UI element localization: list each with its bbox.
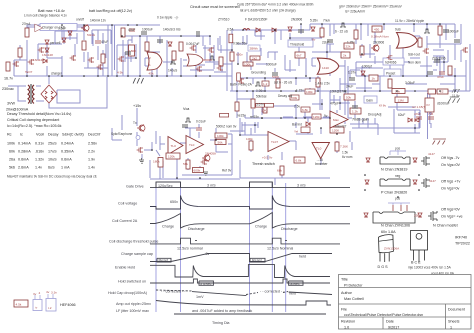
svg-text:3v: 3v [33,292,37,296]
wire pos drop [390,150,406,155]
svg-text:100k: 100k [306,90,313,94]
cursor line 5 [285,183,287,312]
svg-text:11.9v = 28mW ripple: 11.9v = 28mW ripple [395,19,424,23]
svg-text:100k0.14mA0.31v25uS0.24mA2.56v: 100k0.14mA0.31v25uS0.24mA2.56v [7,142,97,146]
svg-text:Kf: Kf [427,103,430,107]
svg-text:Timing Dia: Timing Dia [212,321,230,325]
svg-text:470pF: 470pF [330,102,339,106]
svg-text:TIP20/22: TIP20/22 [455,242,470,246]
svg-text:120k: 120k [168,155,175,159]
junction dots top [61,24,63,26]
diode jfet1 right [413,158,417,162]
svg-text:Ref 9v: Ref 9v [222,169,232,173]
svg-text:50k/bal: 50k/bal [256,95,267,99]
svg-text:ref 1.b5(T: ref 1.b5(T [412,105,426,109]
svg-text:1.15v: 1.15v [296,89,304,93]
diode jfet2 right [413,180,417,184]
box 700k [290,95,299,100]
svg-text:3 mS: 3 mS [207,184,216,188]
svg-text:13M: 13M [398,99,404,103]
or-gate U1b [187,54,203,66]
svg-text:60k0.28mA.616v17uS0.35mA2.2v: 60k0.28mA.616v17uS0.35mA2.2v [9,150,95,154]
svg-text:12.5uS Nominal: 12.5uS Nominal [267,247,293,251]
dots jfet [364,174,366,176]
svg-text:3.67v: 3.67v [256,103,264,107]
svg-text:120uSec: 120uSec [158,184,173,188]
svg-text:1N4148: 1N4148 [42,53,53,57]
svg-text:d1000uF: d1000uF [437,102,450,106]
pulse glyph vco [185,118,191,122]
wire charger loop [57,90,80,103]
wire left drop [13,60,15,76]
enable hold trace [150,265,330,278]
svg-text:2k2: 2k2 [252,57,257,61]
mosfet mid [190,45,196,51]
diode pair amp in 2 [415,118,419,122]
svg-text:Ic=14v(Rc=2.5). *max Rc=105.6k: Ic=14v(Rc=2.5). *max Rc=105.6k [7,124,62,128]
svg-text:HEF4066: HEF4066 [60,303,76,307]
transistor 2N3906 [371,45,379,52]
svg-text:on/off: on/off [76,18,84,22]
svg-text:2BWk: 2BWk [250,47,259,51]
box Gain [364,96,377,103]
svg-text:neg: neg [395,174,401,178]
wire density round4 b [214,38,238,72]
svg-text:tr: tr [36,306,38,310]
box 22 [437,89,448,94]
resistor 4.5k hef [14,300,28,307]
resistor gap e [220,113,229,117]
ripple trace [156,301,331,306]
svg-text:Reset: Reset [252,258,262,262]
box 13M [395,97,408,103]
svg-text:2N4058: 2N4058 [205,152,216,156]
box 1.2 batt [262,81,269,86]
switch box t2 [46,299,56,312]
wire density round3 c [251,52,296,72]
wire or3 [312,58,345,66]
svg-text:RcIcVcoilDecayS&H(C dv/dt)DecC: RcIcVcoilDecayS&H(C dv/dt)DecChf [7,133,101,137]
wire big loop regulator [128,40,167,76]
svg-text:5uSec: 5uSec [290,282,301,286]
svg-text:500K: 500K [272,75,280,79]
hold switched trace [150,279,330,283]
transistor 2N4058 [202,155,210,162]
diode supply [256,28,260,32]
op-amp inverter [312,143,330,159]
svg-text:650v: 650v [236,53,243,57]
svg-text:Kf 8v: Kf 8v [379,104,387,108]
diode jfet1 left [366,158,370,162]
box 50k left [344,94,355,100]
svg-text:Charge: Charge [162,225,174,229]
box 6k yel [301,127,310,133]
or-gate U2 threshold [317,58,339,74]
svg-text:9/2017: 9/2017 [388,326,399,330]
coil voltage trace [150,196,350,210]
resistor extra tm2 [320,28,324,37]
mosfet cell switch 2 [88,57,94,63]
svg-text:- - corrected - -: - - corrected - - [161,290,186,294]
svg-text:Reset: Reset [159,258,169,262]
svg-text:1N4148: 1N4148 [33,58,44,62]
svg-text:held: held [299,255,306,259]
svg-text:D G S: D G S [378,265,389,269]
wire vco bottom row [150,145,240,179]
svg-text:650v: 650v [170,200,178,204]
svg-text:N Chan mosfet: N Chan mosfet [433,224,458,228]
wire reg top loop [112,25,210,76]
box 2BWA [248,45,260,51]
svg-text:120K: 120K [332,129,340,133]
mosfet drawing 3 [428,211,437,221]
wire or gate2 links [183,60,214,66]
capacitor 47uF charger [95,41,101,43]
ground right bus [448,97,460,103]
capacitor coupling [197,31,199,37]
svg-text:LF jitter 100mV max: LF jitter 100mV max [116,309,149,313]
package TO-92 ZVN1306A [379,235,394,262]
svg-text:Coil Current 2A: Coil Current 2A [112,219,138,223]
capacitor 47uF corner [416,117,422,119]
svg-text:3 mS: 3 mS [297,184,306,188]
resistor reg in [121,28,125,37]
svg-text:Batt max +18.4v: Batt max +18.4v [38,9,65,13]
svg-text:Is= 226uA/mV: Is= 226uA/mV [345,10,366,14]
ground spkr [139,158,144,163]
svg-text:TL0: TL0 [189,143,195,147]
junction dots misc [246,77,248,79]
wire charger right column [107,25,109,76]
resistor extra a [18,48,22,57]
pulse symbol 2 [209,56,215,60]
svg-text:TL0: TL0 [171,144,177,148]
svg-text:Date: Date [386,320,394,324]
svg-text:File: File [341,308,347,312]
svg-text:1.2k: 1.2k [352,110,358,114]
svg-text:Yel: Yel [294,130,298,134]
svg-text:Critical Coil damping dependan: Critical Coil damping dependant [7,118,59,122]
svg-text:6v nom: 6v nom [342,155,353,159]
capacitor right b [439,72,445,74]
capacitor gnding [272,73,278,75]
svg-text:4 5k: 4 5k [117,71,123,75]
box 22 second [428,89,436,94]
box 56k vco [215,140,226,145]
svg-text:0.5A: 0.5A [227,28,234,32]
mosfet spkr [137,147,143,153]
transistor charger pass [81,25,89,32]
resistor 450 [372,26,382,32]
dots extra [135,57,137,59]
svg-text:0 1w ripple →|⊦: 0 1w ripple →|⊦ [157,16,179,20]
svg-text:1.5k: 1.5k [342,151,348,155]
svg-text:1mV: 1mV [196,295,204,299]
svg-text:3.3v: 3.3v [51,291,57,295]
svg-text:22uF: 22uF [322,41,329,45]
wire thresh opamp [240,118,296,178]
svg-text:9uS: 9uS [395,28,401,32]
svg-text:ne15v: ne15v [237,114,246,118]
svg-text:8v: 8v [312,38,316,42]
wire density round3 f [312,96,375,124]
wire loop left b [88,52,108,68]
box 22k [344,43,354,49]
svg-text:7.26K: 7.26K [340,145,349,149]
mosfet vco [201,159,207,165]
svg-text:On Vgs= +ve: On Vgs= +ve [441,215,463,219]
svg-text:Sheets: Sheets [448,320,460,324]
svg-text:TL07: TL07 [271,140,278,144]
wire density round4 c [356,44,375,88]
box 6k7 [295,52,305,58]
capacitor 24uF [349,78,355,80]
svg-text:batt low/Reg cut off(12.2v): batt low/Reg cut off(12.2v) [89,9,132,13]
svg-text:+0.5 9v: +0.5 9v [262,156,273,160]
svg-text:6.8k: 6.8k [302,108,308,112]
svg-text:per cell: per cell [50,41,61,45]
svg-text:62uF: 62uF [398,113,405,117]
wire extra h left [14,31,98,68]
ground vco [203,172,208,175]
svg-text:140uS: 140uS [168,69,177,73]
wire mid verticals [152,42,181,76]
resistor 1S [438,26,442,35]
svg-text:140uS/3 mS: 140uS/3 mS [163,28,181,32]
svg-text:140mA 12v: 140mA 12v [90,19,106,23]
wire mid columns charger [47,25,98,76]
svg-text:60v 1.8A: 60v 1.8A [381,230,396,234]
svg-text:Author: Author [341,291,353,295]
svg-text:0.96v: 0.96v [256,89,264,93]
mosfet right a [423,48,429,54]
svg-text:Max437: Max437 [335,125,347,129]
svg-text:47uF: 47uF [128,28,135,32]
svg-text:pos: pos [395,147,401,151]
capacitor vco2 [182,125,188,127]
svg-text:6k7: 6k7 [297,54,302,58]
box 6.8k [301,107,310,112]
capacitor 47uF reg [129,29,135,31]
svg-text:180k: 180k [153,160,160,164]
svg-text:3VW: 3VW [7,102,16,106]
wire extra topmid h [237,30,345,52]
wire density round4 a [125,44,136,62]
resistor gap c [360,46,364,55]
resistor 100k a [243,62,253,66]
wire extra density left [20,27,103,76]
resistor extra b [101,54,105,63]
zener ref [168,42,172,46]
svg-text:68k: 68k [277,169,282,173]
capacitor 1000uF right [454,40,460,42]
reset box 1 [157,258,171,262]
resistor threshold chain [251,99,255,108]
mosfet reg switch [118,56,124,62]
svg-text:2k: 2k [343,54,347,58]
svg-text:Off Vgs +7v: Off Vgs +7v [441,180,460,184]
capacitor 22uF [327,40,333,42]
svg-text:Circuit case must be screened: Circuit case must be screened [190,5,240,9]
resistor charger [82,41,86,50]
svg-text:Coil voltage: Coil voltage [118,202,137,206]
svg-text:0.38mA Nom: 0.38mA Nom [371,35,389,39]
mosfet extra a [38,47,44,53]
resistor extra r1 [354,30,358,39]
svg-text:5.35v: 5.35v [310,19,318,23]
svg-text:7u5: 7u5 [428,112,433,116]
svg-text:600k: 600k [194,169,201,173]
svg-text:P Chan 2N3820: P Chan 2N3820 [381,191,407,195]
svg-text:mje 13003 vces 400v Icn 1.: mje 13003 vces 400v Icn 1.5A [408,266,452,270]
box 600k [193,168,204,173]
ground red corner [433,139,447,145]
resistor 2k2 [250,56,260,60]
resistor gap b [230,52,234,61]
svg-text:held: held [289,292,296,296]
droop trace [156,290,288,295]
svg-text:12.5uS nominal: 12.5uS nominal [177,247,203,251]
inductor L filter [243,29,250,31]
resistor 8k2 [316,78,320,87]
wire right double verticals [345,60,348,118]
package TO-220 [411,231,428,263]
gate drive trace [150,182,350,188]
resistor battery balance [25,28,29,37]
svg-text:ZTV510: ZTV510 [218,18,230,22]
svg-text:0.5uF: 0.5uF [58,27,66,31]
svg-text:100k: 100k [217,134,224,138]
mosfet batt [238,78,244,84]
svg-text:120k: 120k [313,115,320,119]
wire main +15 bus left [14,75,232,77]
mosfet cell switch [70,55,76,61]
wire density round4 e [230,122,258,133]
wire batt peak row [237,78,310,118]
capacitor extra reg [157,40,163,42]
cursor line 1 [155,183,157,312]
svg-text:Decay Threshold detail(Nom Vs=: Decay Threshold detail(Nom Vs=14.6v) [7,112,71,116]
zener 1.37 [361,71,365,75]
resistor marks zvn [393,205,407,211]
svg-text:47uF: 47uF [437,75,444,79]
svg-text:F DA100/1350F: F DA100/1350F [245,18,268,22]
svg-text:6 - 22 uS: 6 - 22 uS [335,30,348,34]
svg-text:DroopAdj: DroopAdj [368,113,382,117]
junction dots bus2 [236,90,238,92]
box 120K inv [330,127,344,133]
svg-text:+15v: +15v [133,104,141,108]
resistor extra mb1 [235,102,239,111]
svg-text:ZVN1306: ZVN1306 [432,57,446,61]
svg-text:Li ion cell charge balance 4.1: Li ion cell charge balance 4.1v [24,14,67,18]
gate pulse box [156,182,181,188]
svg-text:Off Vgs -7v: Off Vgs -7v [441,156,460,160]
box 120k vco [166,153,180,159]
svg-text:70dB gain: 70dB gain [352,118,369,122]
box Threshold [288,40,313,47]
svg-text:ref15v: ref15v [250,115,259,119]
zener top1 [288,27,292,31]
svg-text:56k: 56k [183,162,188,166]
svg-text:Preset: Preset [386,72,395,76]
diode zvn right [418,213,422,217]
svg-text:450: 450 [374,28,379,32]
wire inverter [296,128,337,165]
svg-text:25k: 25k [414,214,419,218]
svg-text:45k: 45k [149,72,154,76]
op-amp thresh switch [268,132,289,152]
resistor mid [172,51,176,60]
or-gate U3 [397,33,418,49]
svg-text:24uF: 24uF [346,85,353,89]
mosfet extra r2 [462,47,468,53]
threshold pulse trace [150,238,340,244]
svg-text:Gain: Gain [366,99,373,103]
zener D charge balance [45,40,49,44]
svg-text:→16: →16 [316,158,323,162]
transistor Q balance [13,61,19,67]
svg-text:Hold switched on: Hold switched on [118,279,146,283]
svg-text:9v: 9v [324,114,328,118]
wire right corner pair [388,93,431,139]
mosfet drawing 2 [421,178,430,188]
svg-text:Charge sample cap: Charge sample cap [121,252,153,256]
lf jitter baseline [174,313,326,315]
svg-text:1k: 1k [372,77,376,81]
zener extra chg [68,31,72,35]
box Preset [384,69,401,76]
svg-text:10K: 10K [261,109,267,113]
svg-text:56k: 56k [218,141,223,145]
svg-text:On Vgs=0V: On Vgs=0V [441,163,461,167]
title block frame [339,275,472,330]
diode pair amp in [408,118,412,122]
svg-text:Grounding: Grounding [251,71,266,75]
svg-text:1.4 to 2.5v: 1.4 to 2.5v [315,82,330,86]
wire extra midband2 [245,118,368,142]
svg-text:charger: charger [51,72,63,76]
svg-text:1000uF: 1000uF [142,28,153,32]
svg-text:TaO7: TaO7 [25,70,33,74]
op-amp vco B [186,136,204,154]
mosfet drawing 1 [421,156,430,166]
svg-text:4v: 4v [46,290,50,294]
wire extra midband [237,91,420,128]
svg-text:16.7v: 16.7v [4,77,13,81]
wire density round3 e [420,50,461,66]
svg-text:Spkr/Earphone: Spkr/Earphone [111,132,132,136]
wire battery column [26,25,28,76]
svg-text:0.0047uF: 0.0047uF [186,42,200,46]
wire sh out [356,62,410,76]
resistor preset [388,79,392,88]
diode extra tm [272,28,276,32]
capacitor 7u5 corner [428,117,434,119]
wire reg section verticals [117,36,140,76]
resistor osc [219,57,223,66]
cursor line 2 [180,183,182,312]
diode zvn left [364,213,368,217]
capacitor extra mb [352,106,358,108]
wire threshold box area [289,38,312,66]
wire mid bus main [230,90,470,92]
svg-text:Vca: Vca [183,107,190,111]
svg-text:2: 2 [149,56,151,60]
svg-text:20w@100mA: 20w@100mA [6,108,29,112]
svg-text:4147: 4147 [428,152,435,156]
svg-text:Coils 26T*20mm dia* 4 mm 3.2: Coils 26T*20mm dia* 4 mm 3.2 ohm 400uH m… [237,3,314,7]
